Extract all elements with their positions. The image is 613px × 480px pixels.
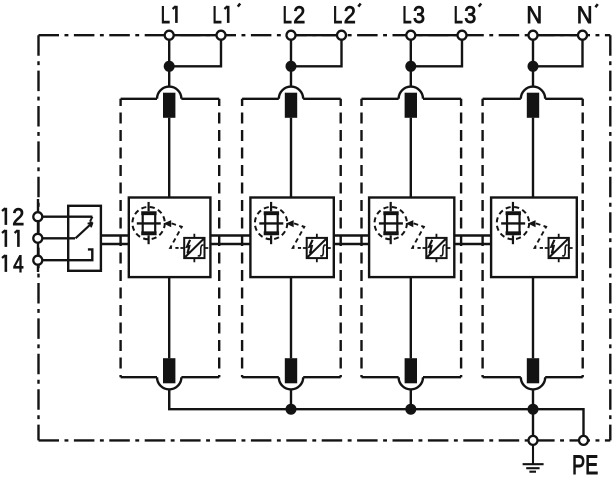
svg-text:L: L [213,2,222,29]
terminal L1' [217,31,226,40]
wire contact 11 common [43,237,76,239]
wire L3 box to bottom disconnector [410,277,412,358]
svg-text:L: L [161,2,170,29]
wire L1 to bottom bus [168,389,170,409]
trigger device N: diagonal [550,239,568,257]
spark gap L3: bottom stub [390,235,392,244]
module N boundary right (dashed) [582,99,584,377]
wire bottom bus [169,390,583,441]
trigger device L2: box [307,238,327,258]
wire L1 box feed [168,118,170,198]
spark gap L3: bottom electrode [383,231,398,235]
disconnector bottom L1: base lines [121,376,220,378]
terminal L1 [165,31,174,40]
wire contact 12 [43,215,93,217]
junction dot N [528,61,539,72]
MODULES [121,87,583,410]
svg-text:3: 3 [464,1,476,28]
junction dot bottom N [528,404,539,415]
spark gap N: bottom electrode [506,231,521,235]
spark gap L3: dashed circle [375,207,407,239]
label 14 [5,255,8,272]
wire L2 drop [290,40,292,87]
disconnector bottom L2: base lines [242,376,341,378]
junction dot L3 [405,61,416,72]
trigger device L1: side ticks [180,234,208,262]
module L1 boundary left (dashed) [119,99,121,377]
wire L1 box to bottom disconnector [168,277,170,358]
ground symbol [523,446,544,472]
spark gap L3: body sides [385,213,398,233]
label L2' [333,2,342,29]
svg-text:L: L [402,2,411,29]
switch blade arrowhead [88,222,93,227]
spark gap L2: middle electrode line [259,222,283,224]
spark gap L3: top electrode [383,211,398,215]
svg-text:2: 2 [293,1,305,28]
disconnector bottom L2: fuse body [285,358,297,383]
disconnector top L1: fuse body [163,93,175,118]
switch blade [76,223,93,238]
spark gap L2: bottom electrode [264,231,279,235]
spark gap L1: dashed circle [132,207,164,239]
spark gap L2: bottom stub [270,235,272,244]
terminal earth [529,436,538,445]
trigger device L2: lightning bolt [310,240,313,254]
spark gap L2: dashed circle [255,207,287,239]
spark gap L1: top stub [148,202,150,211]
module L2 boundary left (dashed) [241,99,243,377]
disconnector bottom L1: fuse body [163,358,175,383]
wire left border solid through contacts 12-11-14 [37,199,39,272]
trigger device N: box [549,238,569,258]
contact 12 fixed tick [90,217,92,222]
spark gap N: top stub [512,202,514,211]
trigger device N: side ticks [545,234,573,262]
trigger link N (dashed) [535,223,547,248]
terminal PE [579,436,588,445]
trigger device L2: side ticks [303,234,331,262]
module L3 boundary right (dashed) [460,99,462,377]
wire L3 to bottom bus [410,389,412,409]
SPD box L1 [129,198,211,278]
wire L3 drop [410,40,412,87]
disconnector top L1: arc [157,87,181,99]
label L2 [283,2,292,29]
wire N to bottom bus [532,389,534,409]
disconnector top N: arc [521,87,545,99]
trigger device L2: surge curve [320,245,326,256]
trigger device L1: lightning bolt tip [187,251,190,255]
disconnector top L2: base lines [242,98,341,100]
disconnector top N: fuse body [527,93,539,118]
wire L2 box feed [290,118,292,198]
spark gap N: dashed circle [497,207,529,239]
wire N box to bottom disconnector [532,277,534,358]
spark gap L2: body sides [265,213,278,233]
disconnector top L2: arc [279,87,303,99]
trigger device L3: lightning bolt [429,240,432,254]
spark gap L1: top electrode [141,211,156,215]
spark gap N: bottom stub [512,235,514,244]
switch box K1 [68,206,101,271]
wire N box feed [532,118,534,198]
svg-text:N: N [577,1,593,28]
terminal L3' [458,31,467,40]
trigger device L3: diagonal [427,239,445,257]
SPD box L2 [250,198,333,278]
wire L2' drop and jumper [291,40,342,67]
module L2 boundary right (dashed) [340,99,342,377]
trigger device L2: lightning bolt tip [309,251,312,255]
enclosure border top (dash-dot) [39,34,611,36]
wire L2 to bottom bus [290,389,292,409]
trigger link L1 (dashed) [170,223,182,248]
trigger link L2 (dashed) [293,223,305,248]
label L3 [402,2,411,29]
spark gap L1: body sides [143,213,156,233]
trigger device L3: box [426,238,446,258]
trigger link L3 (dashed) [412,223,424,248]
wire L3' drop and jumper [411,40,462,67]
disconnector bottom L3: base lines [362,376,462,378]
wire N drop [532,40,534,87]
trigger device L1: diagonal [185,239,203,257]
enclosure border right (dash-dot) [609,35,611,440]
REMOTE SIGNALLING CONTACT [43,206,101,271]
label N' [577,1,593,28]
disconnector top L1: base lines [121,98,220,100]
label L1 [161,2,170,29]
trigger device L2: diagonal [308,239,326,257]
bus PE bar lower line [101,243,491,245]
wire solid jumper L1-L1' [169,34,221,36]
disconnector top L3: fuse body [405,93,417,118]
spark gap L1: middle electrode line [137,222,161,224]
terminal L2 [287,31,296,40]
junction dot L1 [164,61,175,72]
trigger device L3: surge curve [440,245,446,256]
trigger device N: surge curve [562,245,568,256]
junction dot bottom L3 [405,404,416,415]
spark gap L2: top stub [270,202,272,211]
disconnector top L3: arc [399,87,423,99]
disconnector top L3: base lines [362,98,462,100]
junction dot bottom L2 [286,404,297,415]
spark gap N: body sides [507,213,520,233]
trigger arrow N [528,220,536,227]
trigger device N: lightning bolt tip [551,251,554,255]
svg-text:4: 4 [13,250,24,278]
label 12 [5,208,8,225]
module L1 boundary right (dashed) [218,99,220,377]
trigger device N: lightning bolt [551,240,554,254]
wire N' drop and jumper [533,40,583,67]
label L3' [454,2,463,29]
wire contact 14 [43,249,93,260]
terminal L3 [406,31,415,40]
module L3 boundary left (dashed) [360,99,362,377]
disconnector top N: base lines [483,98,583,100]
junction dot L2 [286,61,297,72]
svg-text:2: 2 [344,1,356,28]
spark gap N: top electrode [506,211,521,215]
label L1' [213,2,222,29]
trigger device L1: lightning bolt [187,240,190,254]
spark gap L1: bottom electrode [141,231,156,235]
disconnector bottom N: fuse body [527,358,539,383]
terminal 12 [33,212,42,221]
bus PE bar upper line [101,234,491,236]
terminal 14 [33,256,42,265]
SPD box L3 [369,198,454,278]
wire L1 drop [168,40,170,87]
svg-text:L: L [283,2,292,29]
svg-text:3: 3 [413,1,425,28]
wire earth drop [532,409,534,440]
disconnector bottom L3: fuse body [405,358,417,383]
disconnector bottom N: base lines [483,376,583,378]
disconnector bottom L1: arc [157,377,181,389]
trigger device L3: lightning bolt tip [429,251,432,255]
svg-text:PE: PE [572,451,598,480]
disconnector bottom L3: arc [399,377,423,389]
svg-text:L: L [333,2,342,29]
spark gap L3: middle electrode line [379,222,403,224]
SPD box N [491,198,577,278]
terminal N' [578,31,587,40]
trigger device L1: surge curve [198,245,204,256]
module N boundary left (dashed) [481,99,483,377]
spark gap L3: top stub [390,202,392,211]
spark gap L1: bottom stub [148,235,150,244]
wire solid jumper L2-L2' [291,34,342,36]
wire L3 box feed [410,118,412,198]
trigger arrow L1 [164,220,172,227]
disconnector top L2: fuse body [285,93,297,118]
svg-text:2: 2 [12,203,24,230]
enclosure border bottom (dash-dot) [39,439,611,441]
enclosure border left (dash-dot) [37,35,39,440]
wire solid jumper N-N' [533,34,583,36]
wire L1' drop and jumper [169,40,221,67]
spark gap N: middle electrode line [501,222,525,224]
terminal L2' [337,31,346,40]
disconnector bottom N: arc [521,377,545,389]
wire L2 box to bottom disconnector [290,277,292,358]
label PE [572,451,598,480]
label 11 [5,230,8,247]
label N [526,1,542,28]
trigger device L3: side ticks [423,234,451,262]
wire solid jumper L3-L3' [411,34,462,36]
terminal 11 [33,234,42,243]
trigger device L1: box [184,238,204,258]
svg-text:N: N [526,1,542,28]
trigger arrow L2 [286,220,294,227]
trigger arrow L3 [406,220,414,227]
terminal N [529,31,538,40]
disconnector bottom L2: arc [279,377,303,389]
spark gap L2: top electrode [264,211,279,215]
svg-text:L: L [454,2,463,29]
